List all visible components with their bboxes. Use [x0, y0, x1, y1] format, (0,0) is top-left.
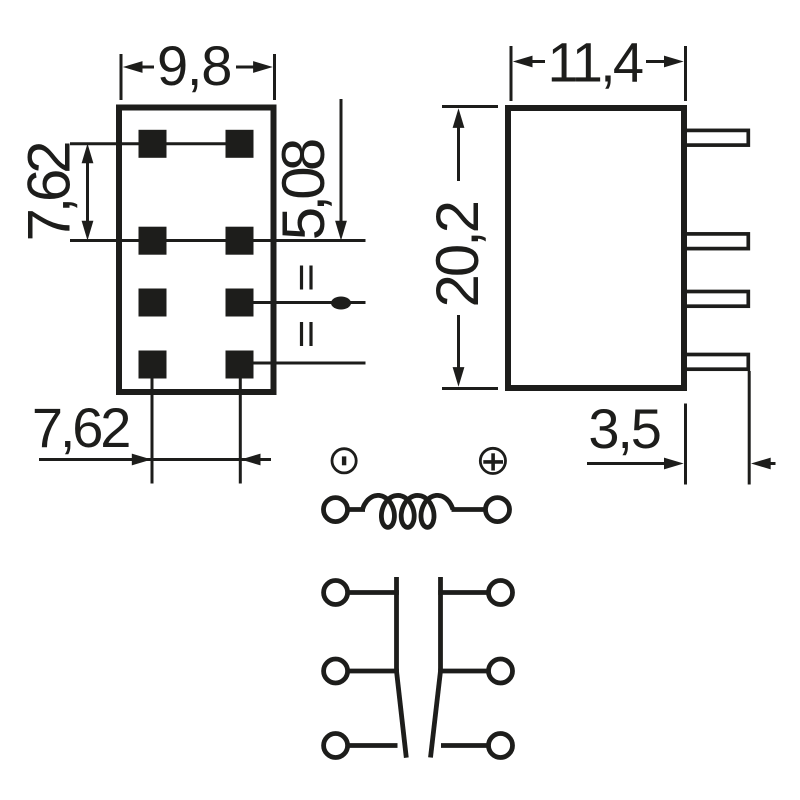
pad pin row2 col2 — [226, 227, 254, 255]
wire row4 — [254, 362, 366, 365]
dimension 11,4 arrow right — [664, 56, 684, 68]
dimension 3,5 shaft left — [587, 462, 666, 465]
wire row1 — [70, 142, 254, 145]
dimension 9,8 extension line left — [120, 54, 123, 100]
pin 4 side view — [684, 355, 749, 370]
dimension 20,2 shaft top — [457, 127, 460, 181]
contact terminal left row1 — [324, 581, 348, 605]
svg-text:20,2: 20,2 — [424, 200, 491, 308]
dimension 11,4 shaft right — [646, 60, 665, 63]
pad pin row2 col1 — [139, 227, 167, 255]
wire contact left row1 — [348, 590, 399, 595]
dimension 9,8 extension line right — [273, 54, 276, 100]
pole rail right — [438, 577, 443, 671]
contact terminal right row3 — [489, 734, 513, 758]
pad pin row4 col1 — [139, 351, 167, 379]
armature right — [431, 671, 441, 758]
relay body outline side view — [508, 108, 684, 388]
dimension 9,8 arrow left — [123, 61, 143, 73]
pole rail left — [394, 577, 399, 671]
wire contact right row1 — [438, 590, 488, 595]
pad pin row3 col1 — [139, 289, 167, 317]
dimension 9,8 shaft right — [236, 66, 254, 69]
svg-text:9,8: 9,8 — [157, 34, 233, 97]
polarity minus symbol — [332, 449, 356, 473]
pad stem right — [239, 375, 242, 484]
dimension 9,8 shaft left — [142, 66, 154, 69]
pad stem left — [151, 375, 154, 484]
dimension 7,62 bottom arrow left — [241, 454, 261, 466]
dimension 7,62 bottom arrow right — [132, 454, 152, 466]
pad pin row4 col2 — [226, 351, 254, 379]
junction dot on row3 — [331, 297, 351, 310]
pin 1 side view — [684, 130, 749, 145]
dimension 5,08 line — [340, 99, 343, 222]
wire contact right row2 — [438, 669, 488, 674]
dimension 7,62 left arrow down — [82, 221, 94, 241]
dimension 7,62 left shaft — [86, 162, 89, 222]
wire row2 — [70, 239, 366, 242]
wire coil left — [348, 507, 366, 512]
equal mark pair 2 — [302, 322, 312, 346]
pad pin row1 col2 — [226, 130, 254, 158]
dimension 11,4 arrow left — [513, 56, 533, 68]
dimension 11,4 extension line left — [510, 46, 513, 101]
dimension 20,2 tick bottom — [442, 387, 498, 390]
svg-text:11,4: 11,4 — [548, 31, 645, 94]
coil terminal right — [486, 498, 510, 522]
dimension 3,5 arrow right-pointing — [664, 458, 684, 470]
svg-text:3,5: 3,5 — [588, 397, 662, 460]
wire contact left row3 — [348, 743, 398, 748]
contact terminal left row3 — [324, 734, 348, 758]
pad pin row1 col1 — [139, 130, 167, 158]
svg-text:5,08: 5,08 — [270, 138, 337, 241]
svg-text:7,62: 7,62 — [16, 141, 83, 242]
wire contact left row2 — [348, 669, 399, 674]
dimension 20,2 arrow down — [453, 367, 465, 387]
equal mark pair 1 — [302, 266, 312, 290]
coil winding L1 — [363, 495, 453, 527]
dimension 7,62 left arrow up — [82, 144, 94, 164]
polarity plus symbol — [480, 448, 505, 473]
armature left — [397, 671, 407, 758]
pad pin row3 col2 — [226, 289, 254, 317]
dimension 11,4 extension line right — [684, 46, 687, 101]
dimension 9,8 arrow right — [253, 61, 273, 73]
contact terminal right row1 — [489, 581, 513, 605]
contact terminal right row2 — [489, 659, 513, 683]
dimension 3,5 shaft right — [770, 462, 776, 465]
dimension 11,4 shaft left — [532, 60, 545, 63]
contact terminal left row2 — [324, 659, 348, 683]
dimension 20,2 tick top — [442, 105, 498, 108]
relay body outline top view — [119, 108, 274, 393]
dimension 5,08 arrow down — [335, 221, 347, 241]
wire coil right — [452, 507, 486, 512]
dimension 3,5 extension line right — [748, 371, 751, 485]
dimension 7,62 bottom line — [39, 458, 271, 461]
dimension 3,5 extension line left — [684, 404, 687, 485]
dimension 3,5 arrow left-pointing — [751, 458, 771, 470]
wire contact right row3 — [441, 743, 489, 748]
coil terminal left — [324, 498, 348, 522]
svg-text:7,62: 7,62 — [32, 396, 132, 459]
pin 2 side view — [684, 234, 749, 249]
dimension 20,2 shaft bottom — [457, 315, 460, 368]
pin 3 side view — [684, 292, 749, 307]
dimension 20,2 arrow up — [453, 108, 465, 128]
wire row3 — [254, 301, 366, 304]
